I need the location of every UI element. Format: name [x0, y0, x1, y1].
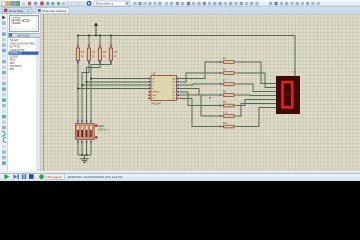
display anode pin state square	[294, 71, 296, 73]
svg-text:x: x	[65, 9, 67, 13]
svg-text:CAPACITOR: CAPACITOR	[10, 48, 25, 52]
resistor R8	[220, 91, 237, 97]
toolbar icons row 1	[1, 1, 319, 6]
svg-text:Home Page: Home Page	[9, 9, 24, 13]
wire col3 to U1 pin B	[87, 81, 149, 83]
svg-text:PIN: PIN	[10, 67, 14, 71]
svg-text:R8: R8	[223, 91, 227, 94]
junction col2 node C	[81, 84, 83, 86]
svg-text:QD: QD	[172, 88, 176, 90]
power rail +5V net	[78, 34, 295, 36]
wire col1 to U1 pin D	[78, 87, 148, 89]
svg-text:RBI: RBI	[153, 95, 157, 97]
wire col2 to U1 pin C	[82, 84, 148, 86]
preview drawing	[12, 18, 30, 24]
svg-text:R9: R9	[223, 101, 227, 104]
junction R2-rail	[88, 35, 90, 37]
svg-text:R6: R6	[223, 69, 227, 72]
svg-text:DEVICES: DEVICES	[17, 34, 30, 38]
resistor R3	[98, 35, 106, 63]
U1 pin labels	[153, 77, 176, 100]
wire R8 to display pin4	[237, 94, 276, 97]
svg-text:ANIMATING: 00:00:55.450000 (CP: ANIMATING: 00:00:55.450000 (CPU load 2%)	[68, 175, 123, 179]
op-amp U1 74LS47 body	[151, 71, 177, 105]
resistor R9	[220, 101, 237, 107]
svg-text:74LS47: 74LS47	[151, 102, 162, 106]
svg-text:QG: QG	[172, 98, 176, 100]
wire R9 to display pin5	[237, 100, 276, 106]
junction col4 node A	[90, 78, 92, 80]
right toolbar group	[269, 2, 272, 5]
svg-text:R4: R4	[114, 50, 118, 54]
svg-text:R11: R11	[223, 122, 228, 125]
wire QC to R7	[180, 84, 220, 85]
svg-text:SW1: SW1	[98, 124, 105, 128]
svg-text:Schematic Capture: Schematic Capture	[42, 9, 66, 13]
junction col1 node D	[77, 88, 79, 90]
ground	[80, 155, 88, 163]
svg-text:BI/RBO: BI/RBO	[153, 92, 160, 94]
resistor R10	[220, 112, 237, 118]
DIP switch SW1	[76, 120, 110, 142]
wire R1 column to SW1 pin1	[77, 63, 79, 121]
svg-text:DIPSW_4: DIPSW_4	[98, 129, 109, 132]
resistor R2	[87, 35, 95, 63]
7-segment display	[276, 76, 300, 114]
svg-text:1k: 1k	[81, 55, 84, 58]
junction gnd bus col2	[81, 154, 83, 156]
wire R6 to display pin2	[237, 73, 276, 88]
svg-text:R5: R5	[223, 58, 227, 61]
svg-text:x: x	[27, 9, 29, 13]
svg-text:R1: R1	[81, 50, 85, 54]
junction col3 node B	[86, 81, 88, 83]
wire R4 jog to column4	[91, 63, 111, 121]
wire R2 jog to column2	[82, 63, 89, 121]
status bar	[5, 174, 123, 180]
digit hole	[284, 83, 291, 105]
segment G dark	[284, 94, 291, 96]
wire R10 to display pin6	[237, 104, 276, 116]
wire R7 to display pin3	[237, 84, 276, 92]
wire QF to R10	[180, 95, 220, 116]
wire QD to R8	[180, 88, 220, 95]
svg-text:R10: R10	[223, 112, 228, 115]
svg-text:R2: R2	[92, 50, 96, 54]
wire R5 to display pin1	[237, 62, 276, 84]
junction R3-rail	[99, 35, 101, 37]
svg-text:R7: R7	[223, 80, 227, 83]
svg-text:Root sheet 1: Root sheet 1	[96, 2, 113, 6]
wire R11 to display pin7	[237, 108, 276, 127]
junction R1-rail	[77, 35, 79, 37]
junction R4-rail	[110, 35, 112, 37]
devices header	[9, 33, 30, 37]
svg-text:1k: 1k	[103, 55, 106, 58]
left vertical tool strip icons	[2, 15, 6, 165]
resistor R1	[76, 35, 84, 63]
svg-text:1k: 1k	[92, 55, 95, 58]
wire col4 to U1 pin A	[91, 78, 148, 80]
wire rail to display anode	[294, 35, 296, 76]
device list items	[9, 38, 40, 170]
svg-text:QC: QC	[172, 85, 176, 87]
combobox	[94, 1, 130, 6]
junction gnd bus col3	[86, 154, 88, 156]
junction VCC-rail	[95, 35, 97, 37]
svg-text:1k: 1k	[114, 55, 117, 58]
power symbol VCC	[94, 22, 98, 35]
svg-text:1 Message(s): 1 Message(s)	[46, 175, 62, 179]
resistor R4	[109, 35, 117, 63]
sheet border frame	[43, 14, 45, 171]
wires SW1 to ground bus	[78, 143, 91, 156]
resistor R6	[220, 69, 237, 75]
wire QB to R6	[180, 73, 220, 82]
tabs	[3, 8, 70, 14]
wire QG to R11	[180, 98, 220, 126]
resistor R7	[220, 80, 237, 86]
wire R3 jog to column3	[87, 63, 101, 121]
U1 left pin stubs and state squares	[148, 78, 151, 99]
svg-text:U1: U1	[152, 71, 156, 75]
resistor R11	[220, 122, 237, 128]
U1 right pin stubs and state squares	[177, 78, 181, 99]
wire QA to R5	[180, 62, 220, 79]
probe marker	[209, 97, 211, 99]
wire QE to R9	[180, 92, 220, 106]
svg-text:R3: R3	[103, 50, 107, 54]
lit segments ring of digit 0	[281, 81, 293, 109]
resistor R5	[220, 58, 237, 64]
